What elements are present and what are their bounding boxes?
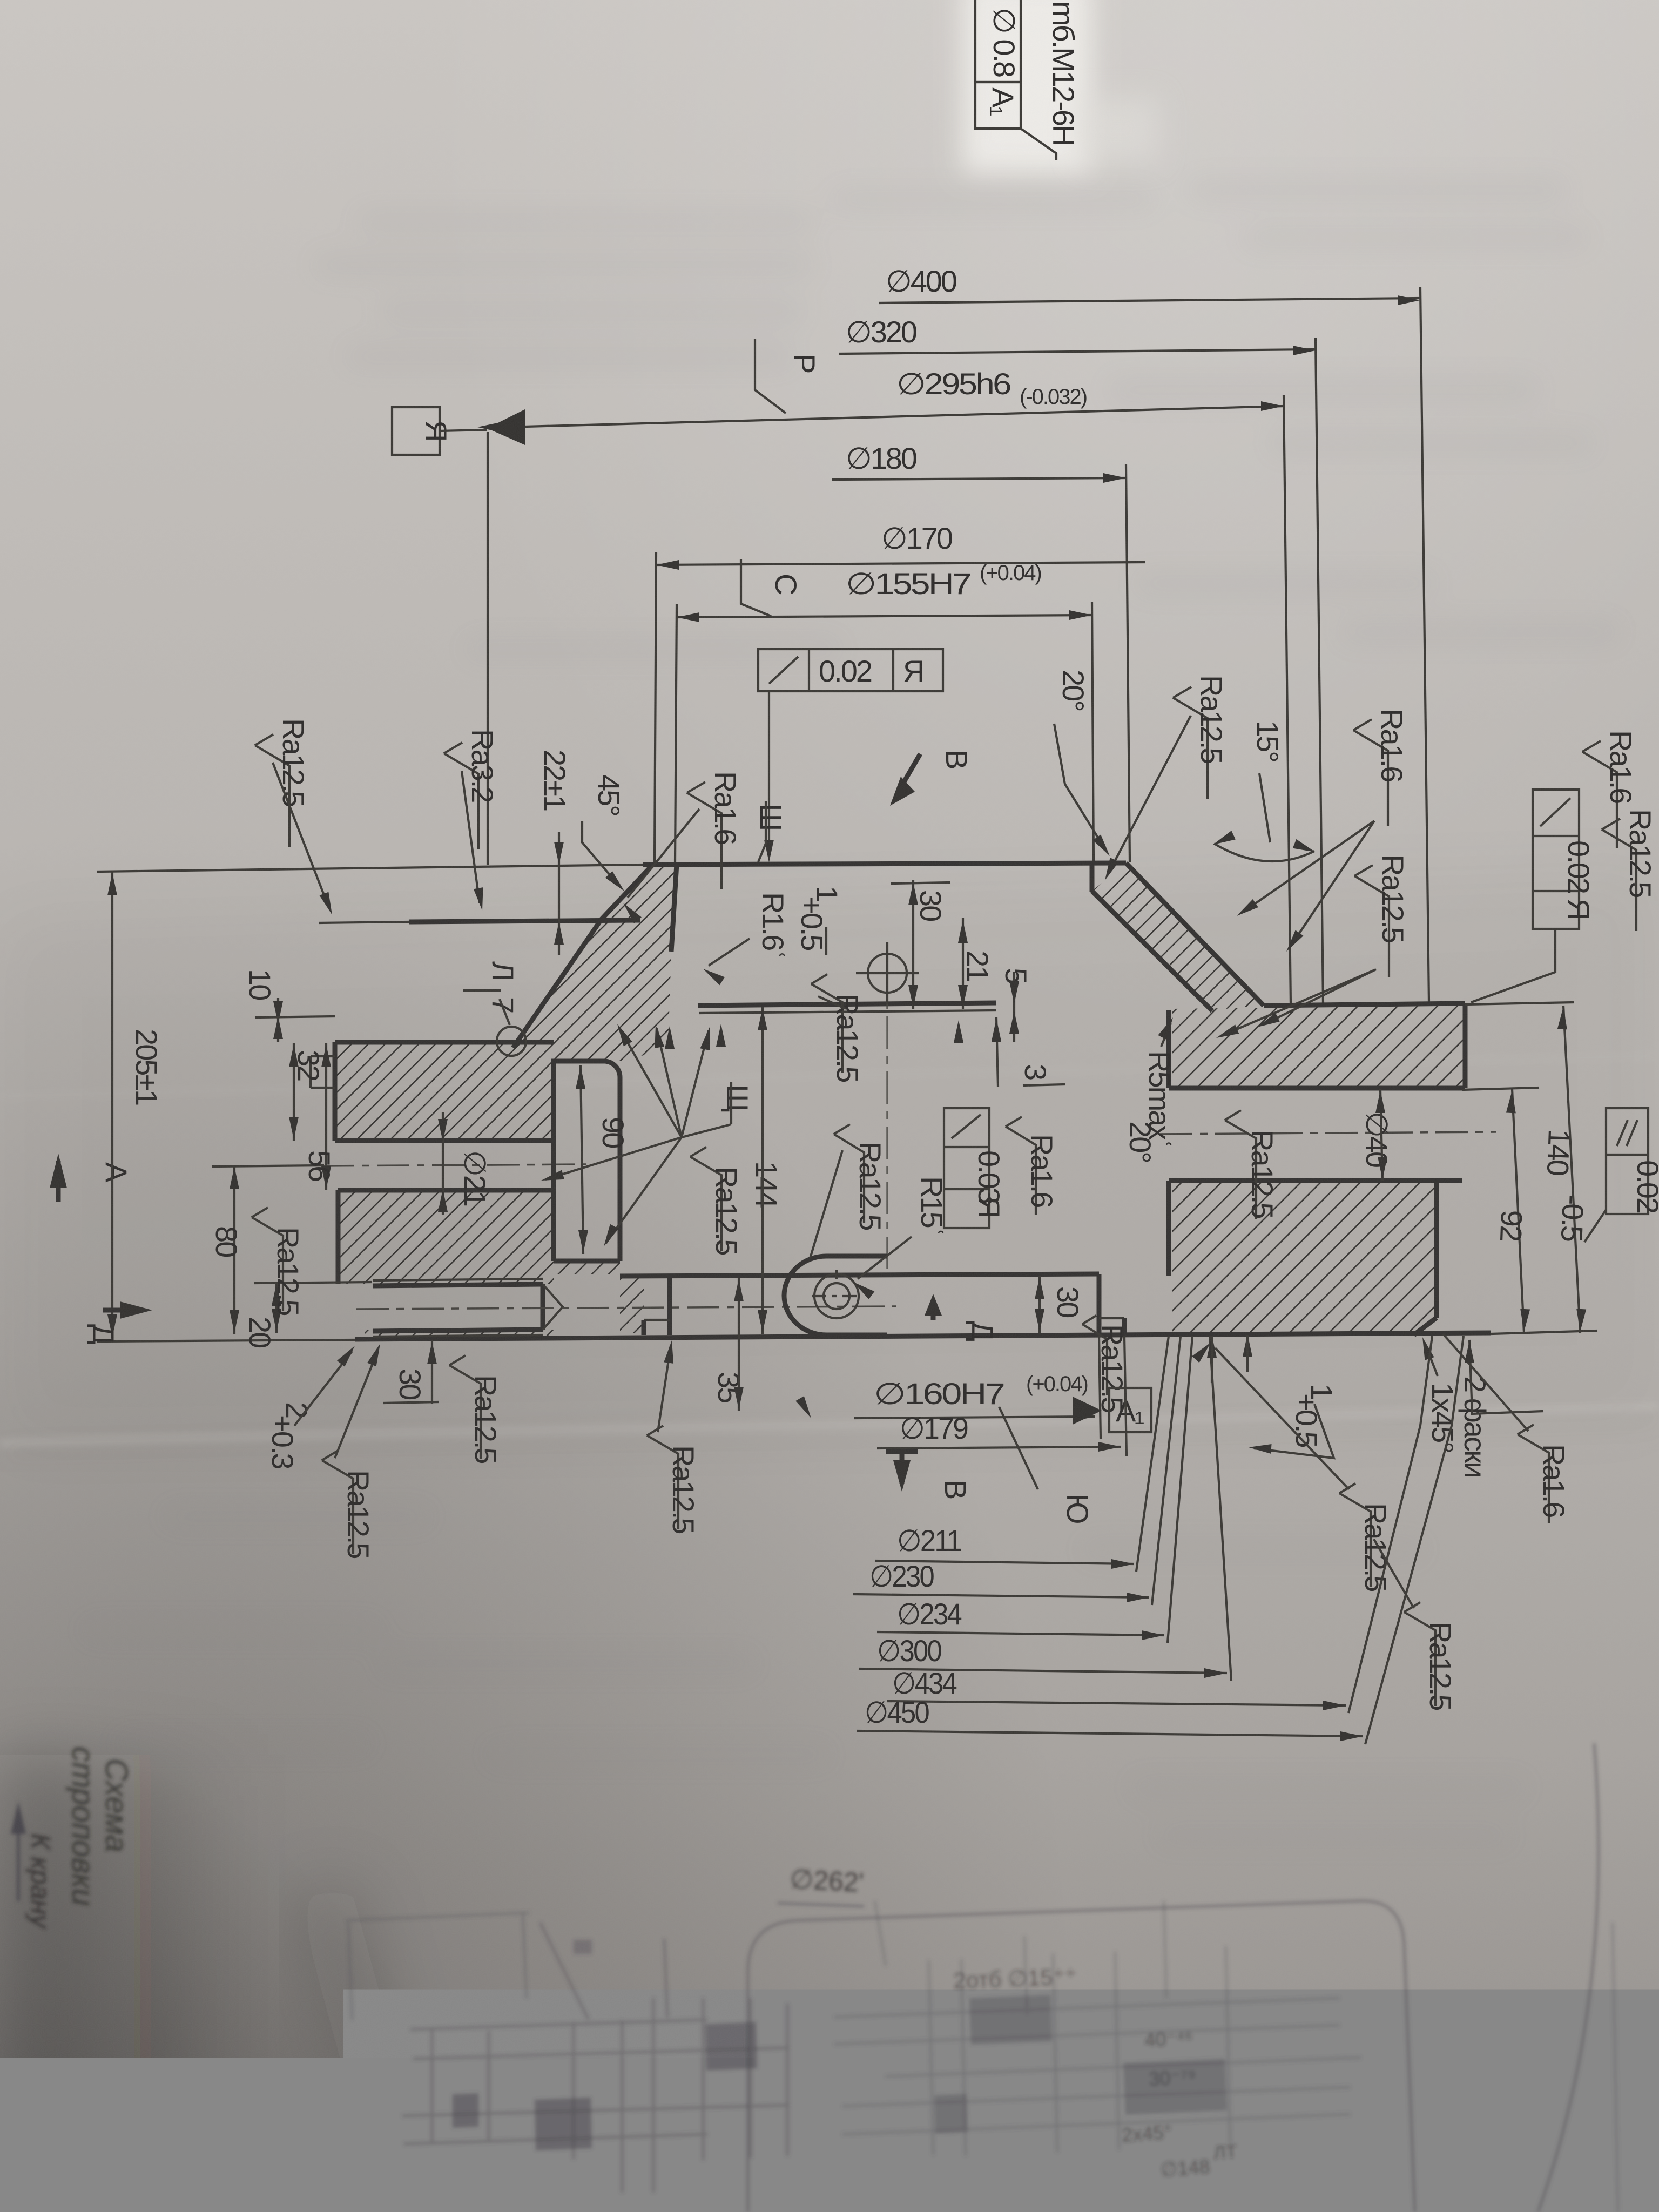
centerline Ø21	[322, 1164, 586, 1166]
roughness Ra1.6 beside right frame	[1582, 741, 1617, 848]
bore wall right	[1090, 863, 1095, 892]
Ø179 counterbore steps	[1099, 1317, 1124, 1319]
cone outer right	[1126, 863, 1264, 1006]
cone inner right	[1092, 891, 1212, 1011]
datum A1	[1073, 1397, 1102, 1425]
hatch right ring lower	[1172, 1181, 1437, 1335]
position symbol	[868, 954, 907, 993]
Ø40 centerline	[1160, 1132, 1496, 1134]
M12 axis	[356, 1306, 896, 1309]
frame // 0.02 right mid	[1606, 1108, 1648, 1214]
roughness Ra12.5 in bore	[811, 974, 842, 1073]
top-right white paper scrap	[962, 0, 1092, 173]
dim 80	[233, 1165, 235, 1334]
datum Я box	[392, 407, 440, 455]
strop lug detail	[784, 1256, 887, 1335]
dim 30 below	[431, 1340, 433, 1404]
PART	[97, 863, 1496, 1339]
roughness Ra1.6 beside frame	[1006, 1117, 1036, 1215]
rounded border of under-drawing	[748, 1901, 1415, 2212]
dim 20	[275, 1282, 278, 1333]
RIGHT DIMS	[1192, 1002, 1659, 1710]
small dark smudge marks	[574, 1940, 592, 1954]
under-drawing left shaft	[402, 1923, 790, 2193]
bore wall left	[671, 864, 677, 952]
inner slope left cone	[513, 921, 600, 1048]
roughness Ra12.5 bottom-left 2	[449, 1355, 481, 1459]
dim 92	[1512, 1089, 1524, 1333]
right ring inner wall	[1166, 1010, 1171, 1088]
roughness Ra12.5 below Щ	[690, 1147, 721, 1251]
frame 0.03 Я (rotated, near lug)	[944, 1108, 989, 1228]
soft mid shade	[0, 864, 1659, 1447]
main axis hint	[886, 961, 888, 1274]
roughness Ra12.5 in Ø40 hole	[1225, 1110, 1256, 1219]
dim 56	[325, 1043, 327, 1190]
dim 32	[293, 1043, 295, 1141]
view A arrow	[56, 1161, 61, 1202]
hatch cone right band	[1092, 863, 1264, 1010]
roughness Ra1.6 bottom right	[1518, 1425, 1549, 1523]
M12 threaded hole bottom	[373, 1284, 543, 1286]
paper crease across	[0, 1406, 1659, 1443]
bottom face	[355, 1333, 1491, 1339]
frame 0.02 Я right (rotated)	[1533, 790, 1579, 929]
fold shadow column bottom-left	[0, 0, 1, 1]
small arrows at bottom face	[1207, 1335, 1217, 1358]
LABELS	[255, 675, 1657, 1299]
roughness Ra12.5 far right low	[1404, 1602, 1435, 1706]
hole Ø21 radial: edges	[335, 1138, 554, 1143]
roughness Ra12.5 right edge	[1602, 819, 1636, 931]
roughness Ra1.6 right	[1353, 719, 1388, 826]
roughness Ra12.5 left low	[252, 1208, 283, 1311]
right flange rim upper	[1463, 1003, 1468, 1088]
small rim step left	[311, 1055, 335, 1057]
chamfer 45	[600, 865, 653, 921]
roughness Ra3.2	[444, 743, 478, 849]
right flange rim lower + chamfer	[1434, 1181, 1439, 1318]
hatch right ring upper	[1172, 1006, 1465, 1088]
ghost bleed-through text rows upper-left	[313, 178, 1620, 643]
roughness Ra1.6 left	[687, 782, 721, 889]
tolerance frame Ø0.8 A1 (rotated)	[975, 0, 1021, 129]
roughness Ra12.5 upper-left	[255, 734, 289, 847]
seat face 22±1	[409, 920, 640, 922]
under-drawing right shaft	[834, 1901, 1361, 2156]
hatch left flange lower block	[338, 1190, 554, 1284]
BOTTOM DIMS	[712, 1007, 1543, 1744]
faint texts in under-drawing	[953, 1964, 1238, 2181]
right flange top face	[1264, 1003, 1465, 1006]
roughness Ra12.5 bottom mid	[647, 1426, 678, 1529]
hatch cone left band	[513, 865, 678, 1061]
vertical projection line left	[487, 432, 489, 865]
roughness Ra12.5 near A1	[1082, 1316, 1107, 1395]
top face	[643, 863, 1126, 865]
left flange top face	[335, 1040, 554, 1045]
recess face Ø160H7	[620, 1274, 1099, 1276]
bottom-left deep shadow	[0, 0, 1, 1]
LEFT DIMS	[50, 872, 700, 1558]
bore bottom double line	[698, 1003, 996, 1006]
view B bottom	[886, 1449, 918, 1454]
roughness Ra12.5 mid upper	[1173, 687, 1208, 799]
page edge curve right	[1538, 1743, 1599, 2212]
leader from frame	[1021, 129, 1056, 160]
chamfer ext knee	[1469, 1340, 1543, 1414]
dim 10	[277, 998, 279, 1042]
roughness Ra12.5 right of 1+0.5	[1339, 1483, 1371, 1587]
dim 140-0.5	[1563, 1006, 1580, 1333]
slot (axial hole) outline	[554, 1061, 620, 1261]
FAINTBOTTOM	[11, 1743, 1618, 2212]
hatch left flange upper block	[335, 1042, 554, 1141]
small circle Л7	[497, 1027, 526, 1056]
hatch above slot	[554, 1042, 620, 1061]
roughness Ra12.5 bottom-left 1	[322, 1451, 353, 1554]
parallelism frame 0.02 Я	[758, 649, 943, 691]
datum triangle / view P arrow	[487, 409, 525, 445]
Ø40 hole edges	[1169, 1086, 1465, 1091]
roughness Ra12.5 toward lug	[834, 1124, 864, 1223]
hatch bottom thin strip	[365, 1330, 554, 1339]
dim 205±1	[111, 872, 113, 1338]
roughness Ra12.5 right mid	[1354, 865, 1389, 977]
left flange outer wall	[333, 1042, 338, 1141]
view Д arrow bottom-left	[103, 1308, 138, 1313]
